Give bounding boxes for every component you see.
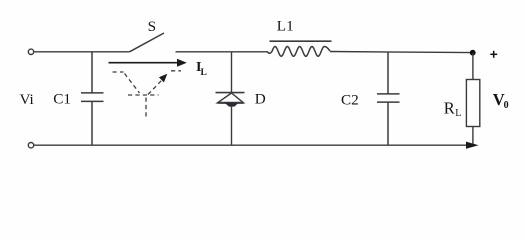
wire: bottom bus xyxy=(34,144,467,146)
inductor L1 bar xyxy=(270,40,332,42)
svg-text:L: L xyxy=(201,68,207,78)
diode anode blob xyxy=(225,103,239,107)
input terminal (bottom) xyxy=(28,143,33,148)
resistor RL xyxy=(466,53,479,145)
svg-text:D: D xyxy=(255,91,266,108)
capacitor C2 xyxy=(377,53,400,145)
svg-text:C1: C1 xyxy=(53,91,71,108)
wire: top bus right segment xyxy=(330,52,473,53)
svg-text:C2: C2 xyxy=(341,91,359,108)
capacitor C1 xyxy=(81,52,104,145)
switch S blade xyxy=(130,33,165,52)
wire: top bus middle segment xyxy=(176,51,268,53)
diode D xyxy=(216,52,245,145)
transistor Q (dashed ghost inside switch) xyxy=(113,71,182,117)
svg-text:L: L xyxy=(455,108,461,119)
svg-text:R: R xyxy=(444,99,455,118)
input terminal (top) xyxy=(28,49,33,54)
svg-text:0: 0 xyxy=(504,100,509,111)
output current arrowhead xyxy=(466,142,479,149)
node: output node dot xyxy=(470,50,476,56)
svg-text:L1: L1 xyxy=(277,17,294,34)
inductor L1 coil xyxy=(267,47,330,57)
svg-text:Vi: Vi xyxy=(20,91,34,108)
wire: top bus left segment xyxy=(34,51,130,53)
arrow IL xyxy=(109,62,179,64)
transistor emitter arrowhead xyxy=(159,74,167,83)
label + xyxy=(490,51,497,58)
svg-text:S: S xyxy=(148,18,156,35)
